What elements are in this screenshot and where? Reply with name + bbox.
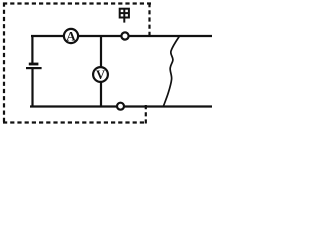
terminal node top (open circle) <box>121 32 128 39</box>
dashed enclosure left edge <box>3 3 5 124</box>
dashed enclosure right edge upper stub <box>148 3 150 37</box>
ammeter A1 circle <box>64 29 78 43</box>
wire: voltmeter branch vertical <box>100 36 102 106</box>
label 甲 (drawn glyph) <box>120 9 129 23</box>
terminal node bottom (open circle) <box>117 103 124 110</box>
wire: left vertical upper (corner to battery) <box>31 35 33 63</box>
dashed enclosure bottom edge <box>3 121 147 123</box>
wire: left vertical lower (battery to bottom wire) <box>31 69 33 108</box>
voltmeter V1 circle <box>93 67 108 82</box>
dashed enclosure top edge <box>3 2 151 4</box>
wire: bottom horizontal <box>30 105 212 107</box>
torn-edge squiggle between wires <box>163 35 180 106</box>
battery cell short plate (top) <box>29 63 39 66</box>
svg-text:V: V <box>96 68 105 82</box>
wire: top horizontal <box>31 35 212 37</box>
battery cell long plate (bottom) <box>26 67 42 69</box>
dashed enclosure right edge lower stub <box>145 105 147 124</box>
svg-text:A: A <box>66 29 76 44</box>
